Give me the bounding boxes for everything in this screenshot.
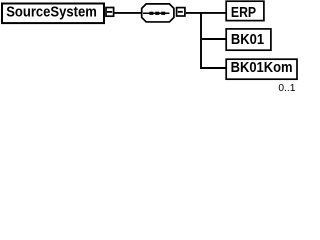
svg-text:BK01: BK01 (231, 32, 264, 48)
element box BK01Kom (226, 59, 297, 79)
collapse button (minus) on sequence (177, 8, 185, 16)
branch wire to BK01 (200, 38, 226, 40)
svg-text:0..1: 0..1 (278, 83, 295, 94)
svg-text:ERP: ERP (231, 5, 256, 21)
element box BK01 (226, 29, 271, 50)
branch wire to BK01Kom (200, 67, 226, 69)
trunk vertical wire (200, 12, 202, 69)
wire SourceSystem to sequence (115, 12, 142, 14)
sequence compositor octagon (142, 4, 174, 22)
element box SourceSystem (2, 3, 104, 23)
element box ERP (226, 1, 264, 21)
collapse button (minus) on SourceSystem (106, 8, 114, 17)
wire sequence to tree trunk and ERP (top branch) (186, 12, 226, 14)
svg-text:SourceSystem: SourceSystem (6, 3, 97, 20)
svg-text:BK01Kom: BK01Kom (231, 60, 293, 76)
